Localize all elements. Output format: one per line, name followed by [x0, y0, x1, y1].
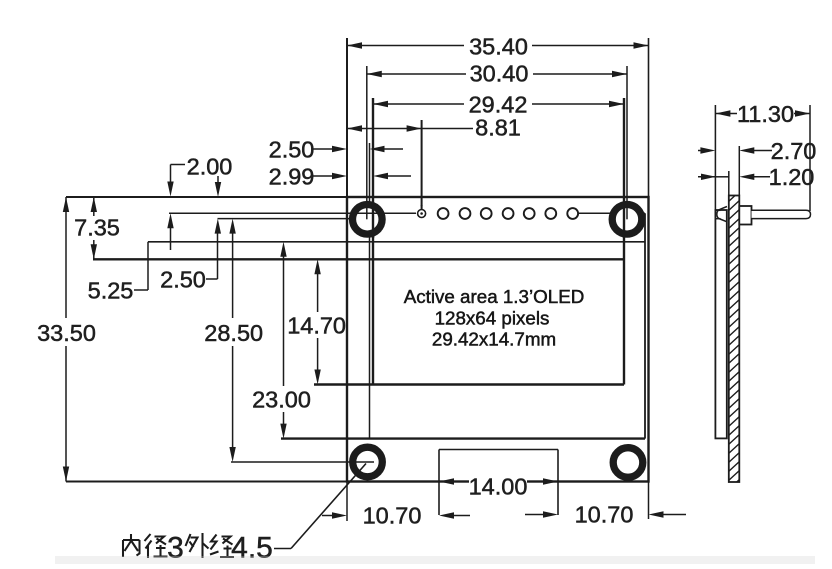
- dimension 23.00: [280, 242, 286, 257]
- dimension 33.50: [65, 197, 67, 318]
- dimension 8.81: [347, 128, 473, 130]
- PCB bottom edge extension to 33.50 dim: [66, 481, 347, 483]
- dimension 7.35: [93, 197, 95, 216]
- pin hole 1 (small): [418, 210, 426, 218]
- PCB left edge extension down (10.70): [346, 482, 348, 522]
- active area rectangle: [93, 258, 624, 260]
- dimension 10.70 left: [322, 515, 334, 517]
- lines through top-right hole: [623, 202, 625, 238]
- svg-text:35.40: 35.40: [469, 34, 528, 60]
- dimension 1.20: [698, 176, 716, 178]
- hole center extension line left (30.40): [366, 66, 368, 219]
- mounting hole bottom-left: [353, 447, 383, 477]
- glass seal frame line: [148, 241, 645, 243]
- 28.50 extension to hole center: [231, 461, 353, 463]
- side view glass bar: [715, 210, 726, 438]
- PCB right edge extension up (35.40): [648, 38, 650, 197]
- svg-text:10.70: 10.70: [575, 502, 634, 528]
- dimension 11.30: [715, 113, 737, 115]
- svg-text:Active area 1.3’OLED: Active area 1.3’OLED: [404, 286, 585, 307]
- connector bump on glass: [717, 207, 727, 222]
- PCB left face extension (1.20): [728, 171, 730, 196]
- PCB top edge extension to 33.50 dim: [66, 196, 347, 198]
- dimension 14.70: [314, 259, 320, 274]
- pin tip extension line (11.30): [809, 105, 811, 211]
- pin hole 5: [503, 208, 514, 219]
- pin hole 6: [524, 208, 535, 219]
- svg-text:14.00: 14.00: [469, 474, 528, 500]
- svg-text:10.70: 10.70: [363, 503, 422, 529]
- mounting hole top-left: [353, 205, 383, 235]
- svg-text:2.99: 2.99: [269, 164, 315, 190]
- svg-text:30.40: 30.40: [470, 61, 529, 87]
- pin hole 3: [460, 208, 471, 219]
- svg-text:2.50: 2.50: [269, 137, 315, 163]
- mounting hole bottom-right: [613, 448, 643, 478]
- pin: [752, 210, 811, 218]
- svg-text:23.00: 23.00: [252, 387, 311, 413]
- center tick bottom-left hole: [353, 461, 374, 463]
- svg-text:1.20: 1.20: [769, 164, 815, 190]
- polarizer top edge line: [218, 218, 350, 220]
- dimension 35.40: [347, 45, 464, 47]
- leader line to mounting hole: [274, 548, 291, 550]
- pin hole 7: [545, 208, 556, 219]
- glass panel left edge: [369, 143, 371, 439]
- svg-text:128x64 pixels: 128x64 pixels: [435, 308, 550, 329]
- lines through top-left hole: [372, 202, 374, 238]
- svg-text:2.00: 2.00: [187, 154, 233, 180]
- glass panel bottom edge: [281, 437, 645, 439]
- svg-text:29.42x14.7mm: 29.42x14.7mm: [432, 329, 556, 350]
- svg-text:33.50: 33.50: [37, 320, 96, 346]
- glass panel top edge: [169, 212, 645, 214]
- faint scanner band at bottom: [55, 556, 815, 564]
- svg-text:7.35: 7.35: [74, 215, 120, 241]
- pin hole 4: [481, 208, 492, 219]
- dimension 29.42: [373, 103, 464, 105]
- dimension 10.70 right: [525, 514, 545, 516]
- svg-text:14.70: 14.70: [287, 313, 346, 339]
- svg-text:28.50: 28.50: [204, 320, 263, 346]
- dimension 28.50: [229, 219, 235, 234]
- pin hole 2: [438, 208, 449, 219]
- svg-text:8.81: 8.81: [475, 115, 521, 141]
- mounting hole top-right: [612, 205, 642, 235]
- glass panel right edge: [644, 213, 646, 438]
- svg-text:2.70: 2.70: [771, 138, 817, 164]
- svg-text:2.50: 2.50: [160, 267, 206, 293]
- label: inner dia 3 outer dia 4.5 (hanzi drawn as paths): [123, 540, 140, 557]
- pin 1 extension line (8.81): [421, 120, 423, 214]
- PCB left edge extension up (35.40): [346, 38, 348, 197]
- dimension 30.40: [367, 73, 466, 75]
- PCB right edge extension down (10.70): [648, 482, 650, 520]
- svg-text:11.30: 11.30: [737, 101, 794, 127]
- dimension 2.70: [698, 150, 704, 152]
- pin header housing: [739, 206, 751, 225]
- side view glass front-face extension line: [714, 105, 716, 212]
- svg-text:5.25: 5.25: [88, 278, 134, 304]
- pin connector box (14.00): [439, 449, 558, 451]
- PCB outline (front view) 35.40 x 33.50: [347, 197, 649, 482]
- PCB right face extension (2.70): [738, 146, 740, 196]
- pin hole 8: [567, 208, 578, 219]
- dimension 14.00 (on PCB bottom edge line): [439, 478, 454, 484]
- hole center extension line right (30.40): [626, 66, 628, 219]
